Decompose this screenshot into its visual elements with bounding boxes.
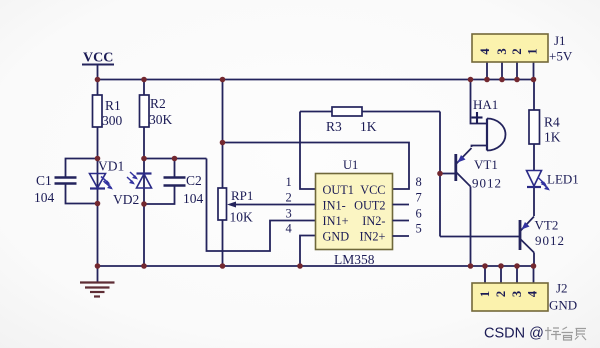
svg-text:10K: 10K <box>230 210 254 225</box>
wire: bottom ground rail <box>97 265 534 267</box>
svg-text:C2: C2 <box>186 173 202 188</box>
svg-text:OUT1: OUT1 <box>323 183 354 197</box>
svg-text:1: 1 <box>286 175 292 189</box>
wire: R4 top lead <box>533 79 535 110</box>
node VD1/C1 bottom <box>95 201 101 207</box>
svg-text:IN2-: IN2- <box>362 214 385 228</box>
svg-text:RP1: RP1 <box>231 188 253 203</box>
connector J1 <box>472 33 573 64</box>
ground symbol <box>80 283 115 297</box>
svg-text:IN1-: IN1- <box>323 199 346 213</box>
svg-text:VCC: VCC <box>360 183 385 197</box>
wire: HA1 top lead from +5V rail <box>471 79 488 124</box>
wire: RP1 bottom lead to ground rail <box>222 220 224 266</box>
svg-text:C1: C1 <box>36 173 52 188</box>
capacitor C2 <box>164 173 204 206</box>
potentiometer RP1 <box>218 188 253 225</box>
svg-text:R1: R1 <box>105 98 121 113</box>
svg-text:1K: 1K <box>360 119 377 134</box>
diode VD2 (photodiode) <box>113 172 152 207</box>
wire: J1 pin stubs <box>487 62 534 79</box>
wire: C1 parallel loop <box>66 159 98 178</box>
svg-text:7: 7 <box>416 191 422 205</box>
wire: C2 top bus to sense node <box>144 158 207 160</box>
svg-text:OUT2: OUT2 <box>354 199 385 213</box>
U1 pin labels row2: IN1- / OUT2 <box>323 199 386 213</box>
svg-text:VD2: VD2 <box>113 192 139 207</box>
svg-text:3: 3 <box>286 207 292 221</box>
node J2 pin2 <box>498 263 504 269</box>
node J2 pin3 <box>514 263 520 269</box>
svg-text:2: 2 <box>286 191 292 205</box>
wire: R1 bottom lead / VD1 column <box>97 127 99 266</box>
node R2 top <box>141 77 147 83</box>
capacitor C1 <box>34 173 77 205</box>
node J1 pin4 <box>484 77 490 83</box>
svg-text:J1: J1 <box>554 33 566 48</box>
node U1 GND <box>297 263 303 269</box>
wire: U1 pin1 up to R3 left <box>300 112 316 190</box>
wire: R1 top lead <box>97 79 99 95</box>
wire: RP1 top lead from VCC rail <box>222 79 224 188</box>
wire: VT2 collector to ground rail <box>533 253 535 267</box>
svg-text:LED1: LED1 <box>547 172 579 187</box>
U1 pin labels row4: GND / IN2+ <box>323 230 386 244</box>
wire: U1 pin4 GND to ground rail <box>300 236 316 267</box>
svg-text:3: 3 <box>510 291 524 297</box>
diode VD1 (IR LED) <box>90 159 125 190</box>
wire: VT2 base wire <box>440 236 519 238</box>
resistor R1 <box>93 95 123 128</box>
svg-text:LM358: LM358 <box>334 252 375 267</box>
power VCC symbol <box>82 65 114 80</box>
node R3 out / VT1 base <box>437 171 443 177</box>
transistor VT1 (9012 PNP) <box>456 148 502 191</box>
svg-text:CSDN @: CSDN @ <box>484 326 544 342</box>
node RP1 top rail <box>220 77 226 83</box>
wire: HA1 bottom lead <box>472 146 488 148</box>
svg-text:4: 4 <box>526 290 540 297</box>
wire: sense node to U1 pin3 (IN1+) <box>207 159 316 252</box>
svg-text:104: 104 <box>34 190 55 205</box>
node RP1 / U1 pin8 <box>220 140 226 146</box>
wire: R4 bottom lead to LED1 <box>533 144 535 171</box>
svg-text:VT2: VT2 <box>535 218 559 233</box>
svg-text:9012: 9012 <box>535 233 565 248</box>
wire: R2 top lead <box>143 79 145 95</box>
svg-text:9012: 9012 <box>472 176 502 191</box>
node VD2/C2 bottom <box>141 201 147 207</box>
node VCC/R1 top <box>95 77 101 83</box>
U1 pin labels row3: IN1+ / IN2- <box>323 214 386 228</box>
svg-text:R4: R4 <box>544 115 560 130</box>
node J1 pin2 <box>514 77 520 83</box>
node J1 pin1 / R4 <box>531 77 537 83</box>
wire: LED1 cathode to VT2 emitter <box>533 188 535 216</box>
U1 pin 6 stub <box>393 220 410 222</box>
svg-text:R2: R2 <box>150 96 166 111</box>
wire: C2 top lead <box>174 159 176 178</box>
wire: VT1 collector to ground rail <box>470 187 472 267</box>
watermark CSDN <box>484 326 586 342</box>
wire: R3 left lead <box>300 111 332 113</box>
node J2 pin1 <box>482 263 488 269</box>
buzzer HA1 <box>472 97 506 151</box>
wire: R2 bottom lead / VD2 column <box>143 127 145 266</box>
U1 pin labels row1: OUT1 / VCC <box>323 183 386 197</box>
node HA1 rail <box>468 77 474 83</box>
svg-text:4: 4 <box>478 48 492 55</box>
node VT1 collector ground <box>468 263 474 269</box>
svg-text:VT1: VT1 <box>474 157 498 172</box>
wire: R3 right lead <box>362 111 440 113</box>
svg-text:HA1: HA1 <box>473 97 498 112</box>
svg-text:6: 6 <box>416 207 422 221</box>
svg-text:4: 4 <box>286 222 293 236</box>
transistor VT2 (9012 PNP) <box>520 217 565 253</box>
resistor R4 <box>529 110 561 145</box>
svg-text:VD1: VD1 <box>98 159 124 174</box>
op-amp U1 LM358 box <box>316 158 393 267</box>
node VD2 ground <box>141 263 147 269</box>
LED LED1 <box>527 171 579 191</box>
node J1 pin3 <box>499 77 505 83</box>
svg-text:300: 300 <box>102 113 123 128</box>
svg-text:1: 1 <box>478 291 492 297</box>
node RP1 ground <box>220 263 226 269</box>
svg-text:3: 3 <box>495 48 509 54</box>
U1 pin 7 stub <box>393 204 410 206</box>
node ground rail left <box>95 263 101 269</box>
svg-text:IN1+: IN1+ <box>323 214 349 228</box>
svg-text:U1: U1 <box>343 158 358 172</box>
node C2 top <box>172 156 178 162</box>
svg-text:+5V: +5V <box>549 49 573 64</box>
node R2/VD2 sense <box>141 156 147 162</box>
wire: ground symbol stub <box>97 266 99 282</box>
svg-text:2: 2 <box>510 48 524 54</box>
svg-text:104: 104 <box>183 191 204 206</box>
svg-text:8: 8 <box>416 175 422 189</box>
node J2 pin4 / VT2 collector <box>531 263 537 269</box>
wire: U1 pin8 VCC connection <box>223 143 410 190</box>
svg-text:2: 2 <box>494 291 508 297</box>
svg-text:1: 1 <box>526 48 540 54</box>
connector J2 <box>472 281 577 313</box>
svg-text:30K: 30K <box>149 112 173 127</box>
resistor R2 <box>140 95 173 127</box>
svg-text:IN2+: IN2+ <box>359 230 385 244</box>
svg-text:GND: GND <box>549 298 577 313</box>
svg-text:1K: 1K <box>544 130 561 145</box>
U1 pin 5 stub <box>393 235 410 237</box>
svg-text:J2: J2 <box>556 281 568 296</box>
svg-text:GND: GND <box>323 230 350 244</box>
wire: top VCC rail <box>97 79 534 81</box>
svg-text:VCC: VCC <box>83 51 113 66</box>
wire: R3 output vertical to transistor bases <box>439 112 441 237</box>
resistor R3 <box>326 107 377 134</box>
wire: C2 bottom lead <box>144 186 175 205</box>
wire: U1 pin2 to RP1 wiper <box>230 204 316 206</box>
svg-text:5: 5 <box>416 222 422 236</box>
svg-text:R3: R3 <box>326 119 342 134</box>
wire: J2 pin stubs <box>485 266 534 283</box>
node R1/VD1/C1 <box>95 156 101 162</box>
wire: VT1 base wire <box>440 173 455 175</box>
